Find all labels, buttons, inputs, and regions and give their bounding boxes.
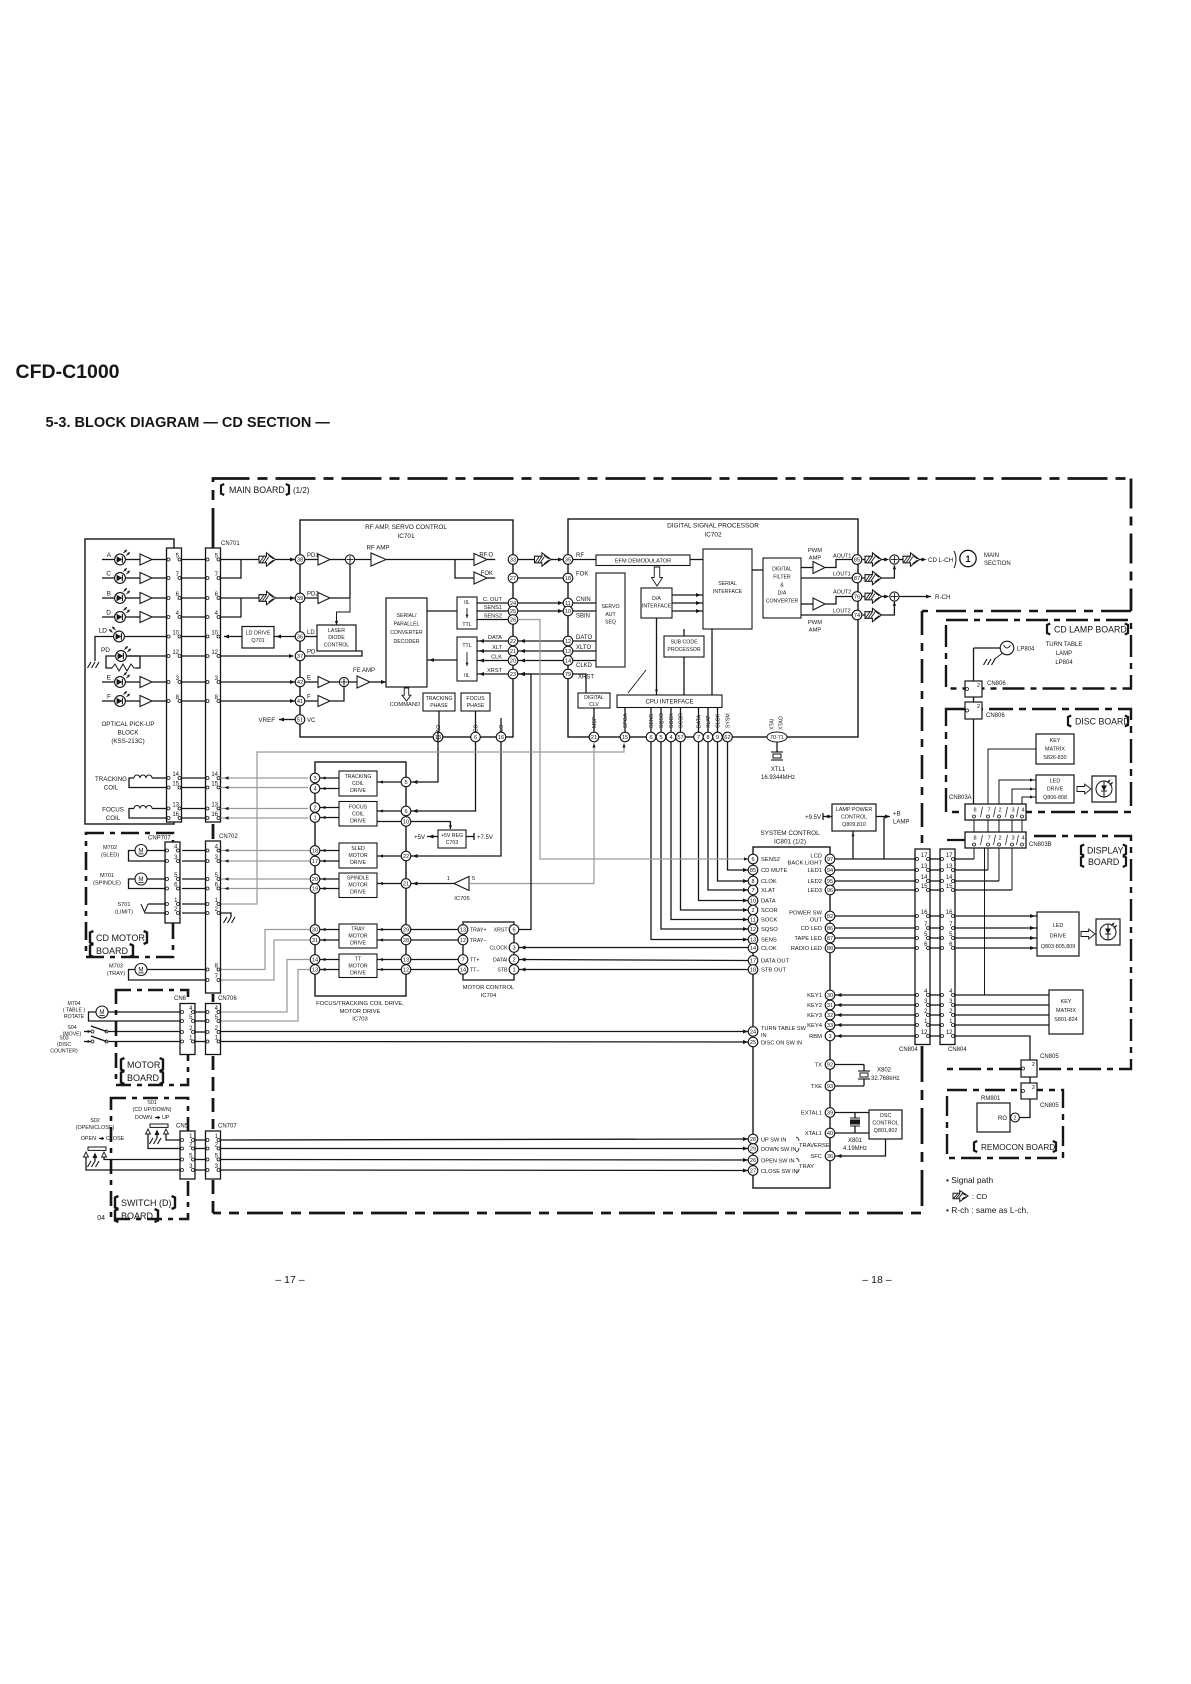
svg-text:CD L-CH: CD L-CH: [928, 557, 953, 564]
svg-text:POWER SW: POWER SW: [789, 911, 822, 917]
remocon board label: [974, 1141, 977, 1152]
svg-text:PWM: PWM: [808, 620, 822, 626]
svg-text:DIODE: DIODE: [328, 635, 345, 641]
svg-text:S01: S01: [147, 1100, 157, 1106]
svg-text:FOK: FOK: [576, 572, 588, 578]
IC702 pin 76 AOUT2: [852, 592, 862, 602]
wire photodiode F: [102, 700, 115, 702]
sum junction L-ch: [890, 555, 899, 564]
svg-text:PWM: PWM: [808, 548, 822, 554]
svg-text:OPTICAL PICK-UP: OPTICAL PICK-UP: [101, 721, 154, 728]
wire TAO to tracking drive: [411, 732, 438, 782]
ground S01: [150, 1138, 162, 1144]
svg-text:CN804: CN804: [899, 1047, 918, 1053]
wires S01 to CN5: [166, 1134, 180, 1140]
svg-text:93: 93: [827, 1084, 833, 1090]
wires between CNP707 and CN702: [182, 850, 206, 852]
svg-text:M703: M703: [109, 964, 123, 970]
LD drive Q701 box: [242, 627, 274, 649]
IC801 pin 32 KEY3: [825, 1010, 835, 1020]
svg-text:6: 6: [649, 735, 652, 741]
svg-text:42: 42: [297, 680, 303, 686]
svg-text:33: 33: [510, 558, 516, 564]
svg-text:4: 4: [669, 735, 672, 741]
svg-text:CN805: CN805: [1040, 1054, 1059, 1060]
legend cd arrow: [953, 1191, 968, 1202]
svg-text:4: 4: [1021, 836, 1024, 842]
wire M702 to CNP707: [147, 850, 165, 852]
svg-text:82: 82: [827, 914, 833, 920]
svg-text:LD DRIVE: LD DRIVE: [246, 631, 271, 637]
wire CLKD 14 to 20: [518, 660, 563, 662]
svg-text:3: 3: [1011, 808, 1014, 814]
svg-text:OPEN: OPEN: [81, 1136, 96, 1142]
IC702 pin 79 XRST: [563, 669, 573, 679]
svg-text:8: 8: [706, 735, 709, 741]
svg-text:CLOK: CLOK: [761, 879, 777, 885]
svg-text:INTERFACE: INTERFACE: [642, 604, 672, 610]
IC702 pin 74 LOUT2: [852, 610, 862, 620]
svg-text:IC703: IC703: [352, 1017, 367, 1023]
svg-text:TRAY: TRAY: [351, 927, 365, 933]
svg-text:3: 3: [512, 946, 515, 952]
lamp power control box: [832, 804, 876, 831]
svg-text:STB OUT: STB OUT: [761, 968, 787, 974]
svg-text:7: 7: [461, 958, 464, 964]
svg-text:C703: C703: [446, 840, 459, 846]
svg-text:10: 10: [750, 899, 756, 905]
IC702 pin 14 CLKD: [563, 656, 573, 666]
svg-text:15: 15: [946, 884, 953, 890]
svg-text:S03: S03: [59, 1036, 68, 1042]
wire M701 to CNP707: [147, 878, 165, 880]
svg-text:2: 2: [1032, 1062, 1035, 1068]
IC801 pin 7 XLAT: [748, 885, 758, 895]
IC701 pins 24 25 26: [508, 598, 518, 608]
wire tracking phase to pin13: [438, 711, 440, 732]
svg-text:CN806: CN806: [987, 681, 1006, 687]
svg-text:XTAI: XTAI: [770, 719, 776, 730]
svg-text:14: 14: [565, 659, 571, 665]
IC801 pin 27 close sw in: [748, 1166, 758, 1176]
crystal X802: [835, 1064, 864, 1066]
wire IC701 36 to LD drive: [274, 636, 295, 638]
IC801 pin 82: [825, 911, 835, 921]
ground S02: [88, 1161, 100, 1167]
IC704 right pins: [509, 925, 519, 935]
svg-text:DIGITAL: DIGITAL: [584, 695, 604, 701]
wires led drive disc to CN803A: [999, 780, 1036, 804]
IC702 pin 12 DATO: [563, 636, 573, 646]
cd motor board label: [90, 931, 93, 944]
svg-text:XLAT: XLAT: [761, 888, 776, 894]
svg-text:DRIVE: DRIVE: [350, 860, 366, 866]
wire row A to PD1: [221, 559, 260, 561]
svg-text:AMP: AMP: [809, 628, 822, 634]
long wire DATAI IC801 to IC704: [519, 960, 748, 961]
svg-text:85: 85: [750, 868, 756, 874]
svg-text:Q701: Q701: [251, 638, 264, 644]
IC801 pin 8 CLOK: [748, 876, 758, 886]
svg-text:KEY: KEY: [1050, 738, 1061, 744]
svg-text:CLOSE SW IN: CLOSE SW IN: [761, 1169, 798, 1175]
IC704 box: [463, 922, 514, 980]
IC801 pin 92 TX: [825, 1060, 835, 1070]
svg-text:35: 35: [565, 558, 571, 564]
svg-text:RF AMP: RF AMP: [366, 545, 389, 552]
svg-text:LAMP: LAMP: [1056, 651, 1072, 657]
svg-text:7: 7: [751, 888, 754, 894]
gray wire SENS2 26 to IC801 6: [518, 620, 748, 860]
svg-text:33: 33: [827, 1023, 833, 1029]
svg-text:MATRIX: MATRIX: [1056, 1008, 1076, 1014]
svg-text:28: 28: [403, 938, 409, 944]
svg-text:SUB CODE: SUB CODE: [670, 640, 698, 646]
svg-text:16: 16: [921, 910, 928, 916]
IC801 pin 6 SENS2: [748, 854, 758, 864]
svg-text:5-3. BLOCK DIAGRAM — CD SECTIO: 5-3. BLOCK DIAGRAM — CD SECTION —: [46, 415, 331, 431]
svg-text:FOK: FOK: [481, 571, 493, 577]
svg-text:DISC ON SW IN: DISC ON SW IN: [761, 1041, 802, 1047]
svg-text:CN6: CN6: [174, 996, 187, 1002]
svg-text:TT: TT: [355, 957, 362, 963]
connector CN805 upper: [1021, 1060, 1037, 1077]
svg-text:2: 2: [313, 806, 316, 812]
IC801 pin 96 LED3: [825, 885, 835, 895]
svg-text:10: 10: [211, 631, 218, 637]
svg-text:BOARD: BOARD: [1088, 857, 1119, 867]
svg-text:E: E: [307, 676, 311, 682]
svg-text:26: 26: [750, 1158, 756, 1164]
svg-text:SPINDLE: SPINDLE: [347, 876, 370, 882]
svg-text:29: 29: [750, 1147, 756, 1153]
svg-text:CLV: CLV: [589, 702, 599, 708]
svg-text:COMMAND: COMMAND: [390, 702, 421, 708]
svg-text:(DISC: (DISC: [57, 1042, 71, 1048]
svg-text:32.768kHz: 32.768kHz: [871, 1076, 900, 1082]
svg-text:DIGITAL SIGNAL PROCESSOR: DIGITAL SIGNAL PROCESSOR: [667, 523, 759, 530]
connector CN701: [206, 548, 221, 822]
svg-text:DIGITAL: DIGITAL: [772, 567, 792, 573]
wire digital CLV to MDP: [593, 708, 595, 732]
svg-text:IC704: IC704: [481, 993, 497, 999]
motor board outline: [116, 990, 188, 1085]
wire SBIN 25 to 10: [518, 610, 563, 612]
wire between CN806: [973, 697, 975, 702]
svg-text:18: 18: [565, 576, 571, 582]
svg-text:10: 10: [403, 820, 409, 826]
wire CNIN 24 to 11: [518, 602, 563, 604]
digital CLV box: [578, 693, 610, 708]
svg-text:PD: PD: [307, 650, 316, 656]
svg-text:38: 38: [297, 558, 303, 564]
signal arrow after AOUT2: [863, 596, 866, 598]
LED indicator disc board: [1092, 776, 1116, 802]
D/A interface box: [641, 588, 672, 618]
wire M704 to CN6: [108, 1011, 180, 1013]
svg-text:TRACKING: TRACKING: [95, 776, 127, 783]
wire row C joins A: [221, 560, 242, 579]
IC801 pin 31 KEY2: [825, 1000, 835, 1010]
wire amp B to connector: [152, 597, 167, 599]
main section brace: [954, 551, 956, 568]
svg-text:12: 12: [460, 938, 466, 944]
amp PD2: [305, 597, 318, 599]
svg-text:6: 6: [404, 809, 407, 815]
svg-text:76: 76: [854, 595, 860, 601]
svg-text:LOUT1: LOUT1: [833, 572, 851, 578]
svg-text:RF.O: RF.O: [479, 553, 493, 559]
wires servo seq: [573, 602, 596, 604]
IC801 pin 13 SENS: [748, 935, 758, 945]
gray wire S701 to SPOA: [221, 744, 625, 905]
disc board label: [1068, 716, 1071, 727]
svg-text:5: 5: [404, 780, 407, 786]
svg-text:SEQ: SEQ: [605, 620, 616, 626]
svg-text:(CD UP/DOWN): (CD UP/DOWN): [133, 1107, 172, 1113]
svg-text:LD: LD: [99, 628, 108, 635]
wire photodiode B: [102, 597, 115, 599]
svg-text:DRIVE: DRIVE: [350, 819, 366, 825]
IC701 pin 41 F: [295, 696, 305, 706]
svg-text:+B: +B: [893, 812, 901, 818]
svg-text:29: 29: [403, 928, 409, 934]
amp photodiode E: [140, 677, 152, 688]
signal arrow after AOUT1: [863, 559, 866, 561]
IC702 pin 35 RF: [563, 555, 573, 565]
svg-text:12: 12: [565, 639, 571, 645]
svg-text:RO: RO: [998, 1116, 1007, 1122]
svg-text:M704: M704: [68, 1001, 81, 1007]
wire lamp power to +B LAMP: [876, 816, 890, 818]
svg-text:FOCUS: FOCUS: [349, 805, 368, 811]
svg-text:CLOK: CLOK: [761, 946, 777, 952]
svg-text:BACK LIGHT: BACK LIGHT: [788, 861, 823, 867]
svg-text:CNIN: CNIN: [576, 597, 591, 603]
svg-text:RADIO LED: RADIO LED: [791, 946, 822, 952]
svg-text:+7.5V: +7.5V: [477, 835, 493, 841]
svg-text:9: 9: [716, 735, 719, 741]
lamp LP804: [1000, 641, 1014, 655]
wires into CPU interface: [656, 618, 658, 695]
key matrix S801-824 box: [1049, 990, 1083, 1034]
IC801 pin 30 KEY1: [825, 990, 835, 1000]
svg-text:LED: LED: [1050, 779, 1061, 785]
svg-text:C. OUT: C. OUT: [483, 597, 503, 603]
svg-text:25: 25: [750, 1040, 756, 1046]
IC801 pin 17 DATA OUT: [748, 956, 758, 966]
svg-text:ROTATE: ROTATE: [64, 1014, 85, 1020]
amp photodiode B: [140, 593, 152, 604]
svg-text:IN: IN: [761, 1033, 767, 1039]
svg-text:17: 17: [750, 959, 756, 965]
svg-text:70·71: 70·71: [770, 735, 784, 741]
svg-text:27: 27: [750, 1169, 756, 1175]
digital filter D/A converter box: [763, 558, 801, 618]
svg-text:XTL1: XTL1: [771, 767, 786, 773]
IC702 pin 87 LOUT1: [852, 573, 862, 583]
svg-text:11: 11: [750, 918, 756, 924]
svg-text:DISPLAY: DISPLAY: [1087, 846, 1124, 856]
svg-text:DATA: DATA: [761, 899, 776, 905]
svg-text:RM801: RM801: [981, 1096, 1001, 1102]
IC702 pin 11 CNIN: [563, 598, 573, 608]
svg-text:15: 15: [622, 735, 628, 741]
svg-text:(SLED): (SLED): [101, 852, 119, 858]
svg-text:SENS1: SENS1: [484, 605, 502, 611]
wire laser diode control: [305, 636, 317, 638]
svg-text:96: 96: [827, 888, 833, 894]
connector CNP707: [165, 842, 180, 923]
IC702 pin 85 AOUT1: [852, 555, 862, 565]
svg-text:16.9344MHz: 16.9344MHz: [761, 775, 795, 781]
gray wires tray motor to drive: [221, 930, 311, 970]
svg-text:17: 17: [921, 853, 928, 859]
motor board label: [121, 1058, 124, 1071]
svg-text:SYSTEM CONTROL: SYSTEM CONTROL: [760, 830, 820, 837]
tracking phase box: [423, 693, 455, 711]
svg-text:CN702: CN702: [219, 834, 238, 840]
led drive hollow arrow: [1081, 929, 1095, 939]
LED indicator display board: [1096, 919, 1120, 945]
IC801 pin 26 open sw in: [748, 1155, 758, 1165]
svg-text:Q803-805,809: Q803-805,809: [1041, 944, 1075, 950]
svg-text:X802: X802: [877, 1068, 892, 1074]
wire LOUT1 up to sum: [882, 565, 895, 578]
svg-text:CD LED: CD LED: [801, 926, 822, 932]
wires DATA XLT CLK XRST: [477, 640, 508, 642]
svg-text:+5V: +5V: [414, 835, 425, 841]
svg-text:14: 14: [172, 772, 179, 778]
wire osc control to SFC: [835, 1139, 886, 1156]
svg-text:LOUT2: LOUT2: [833, 609, 851, 615]
wire CN805 to remocon: [1029, 1077, 1031, 1083]
focus coil drive box: [339, 802, 377, 827]
svg-text:MOTOR: MOTOR: [348, 934, 367, 940]
IC801 pin 94 LED1: [825, 865, 835, 875]
svg-text:13: 13: [172, 803, 179, 809]
svg-text:LD: LD: [307, 630, 315, 636]
svg-text:BLOCK: BLOCK: [118, 730, 140, 737]
tracking coil drive box: [339, 771, 377, 796]
IC701 pin 51 VC: [295, 715, 305, 725]
svg-text:SFC: SFC: [810, 1154, 822, 1160]
svg-text:88: 88: [827, 946, 833, 952]
svg-text:CN5: CN5: [176, 1124, 189, 1130]
IC801 pin 97: [825, 854, 835, 864]
connector CN702: [206, 841, 221, 993]
svg-text:4: 4: [1021, 808, 1024, 814]
svg-text:DISC BOARD: DISC BOARD: [1075, 717, 1130, 727]
IC703 box: [315, 762, 406, 996]
IC801 pin 85 CD MUTE: [748, 865, 758, 875]
amp photodiode A: [140, 554, 152, 565]
svg-text:CN804: CN804: [948, 1047, 967, 1053]
svg-text:KEY4: KEY4: [807, 1023, 823, 1029]
long wire S04 to IC801 24: [108, 1031, 180, 1033]
wire XLTO 13 to 21: [518, 650, 563, 652]
svg-text:VREF: VREF: [258, 717, 275, 724]
long wire STB IC801 to IC704: [519, 969, 748, 971]
svg-text:SERIAL/: SERIAL/: [397, 613, 417, 619]
IC801 pin 39 EXTAL1: [825, 1108, 835, 1118]
IC702 pin 10 SBIN: [563, 606, 573, 616]
svg-text:32: 32: [827, 1013, 833, 1019]
svg-text:CN706: CN706: [218, 996, 237, 1002]
svg-text:2: 2: [751, 908, 754, 914]
svg-text:SWITCH (D): SWITCH (D): [121, 1198, 172, 1208]
wire RF AMP to RFO FOK: [386, 559, 474, 561]
svg-text:25: 25: [510, 609, 516, 615]
wires between CN6 and CN706: [196, 1011, 206, 1013]
AOUT1 amp: [801, 567, 813, 569]
wires CN803B down to display rows: [973, 848, 975, 859]
svg-text:6: 6: [751, 857, 754, 863]
svg-text:PD: PD: [101, 647, 110, 654]
IC801 pin 10 DATA: [748, 896, 758, 906]
svg-text:Q809,810: Q809,810: [842, 822, 866, 828]
amp PD1: [305, 559, 318, 561]
svg-text:OUT: OUT: [810, 918, 823, 924]
svg-text:6: 6: [512, 928, 515, 934]
svg-text:SQSO: SQSO: [659, 713, 665, 728]
connector CN804 display side: [940, 849, 955, 1045]
svg-text:7: 7: [987, 808, 990, 814]
svg-text:57: 57: [677, 735, 683, 741]
AOUT2 amp: [801, 603, 813, 605]
svg-text:2: 2: [1032, 1085, 1035, 1091]
svg-text:XLAT: XLAT: [706, 715, 712, 728]
svg-text:F: F: [307, 695, 311, 701]
CPU interface box: [617, 695, 722, 708]
svg-text:B: B: [107, 591, 111, 598]
svg-text:SENS2: SENS2: [484, 613, 502, 619]
svg-text:LP804: LP804: [1017, 647, 1035, 653]
svg-text:DATA: DATA: [488, 635, 502, 641]
svg-text:: CD: : CD: [972, 1192, 988, 1201]
svg-text:SERVO: SERVO: [601, 604, 619, 610]
svg-text:TURN TABLE SW: TURN TABLE SW: [761, 1026, 807, 1032]
ground lamp: [994, 654, 1002, 660]
svg-text:TRAY–: TRAY–: [470, 938, 486, 944]
svg-text:16: 16: [211, 812, 218, 818]
wires KEY1-4 RBM to CN804: [835, 994, 915, 996]
svg-text:DOWN SW IN: DOWN SW IN: [761, 1147, 796, 1153]
wire XRST 79 to 23: [518, 673, 563, 675]
disc board outline: [946, 709, 1131, 812]
connector CN706: [206, 1004, 221, 1055]
amp photodiode D: [140, 612, 152, 623]
IC801 pin 87 TAPE LED: [825, 933, 835, 943]
svg-text:(SPINDLE): (SPINDLE): [93, 880, 121, 886]
switch board label: [115, 1196, 118, 1209]
svg-text:14: 14: [946, 875, 953, 881]
crystal XTL1: [776, 743, 778, 753]
+7.5V label: [466, 836, 474, 838]
svg-text:CPU INTERFACE: CPU INTERFACE: [645, 700, 693, 706]
svg-text:1: 1: [965, 554, 970, 564]
wire SLO stub: [500, 718, 502, 732]
svg-text:21: 21: [591, 735, 597, 741]
svg-text:TRACKING: TRACKING: [345, 774, 372, 780]
svg-text:LASER: LASER: [328, 628, 345, 634]
svg-text:AOUT2: AOUT2: [833, 590, 851, 596]
svg-text:CLKD: CLKD: [576, 663, 593, 669]
svg-text:FOCUS: FOCUS: [102, 807, 124, 814]
svg-text:16: 16: [946, 910, 953, 916]
svg-text:CONVERTER: CONVERTER: [390, 630, 423, 636]
key matrix S826-830 box: [1036, 734, 1074, 764]
